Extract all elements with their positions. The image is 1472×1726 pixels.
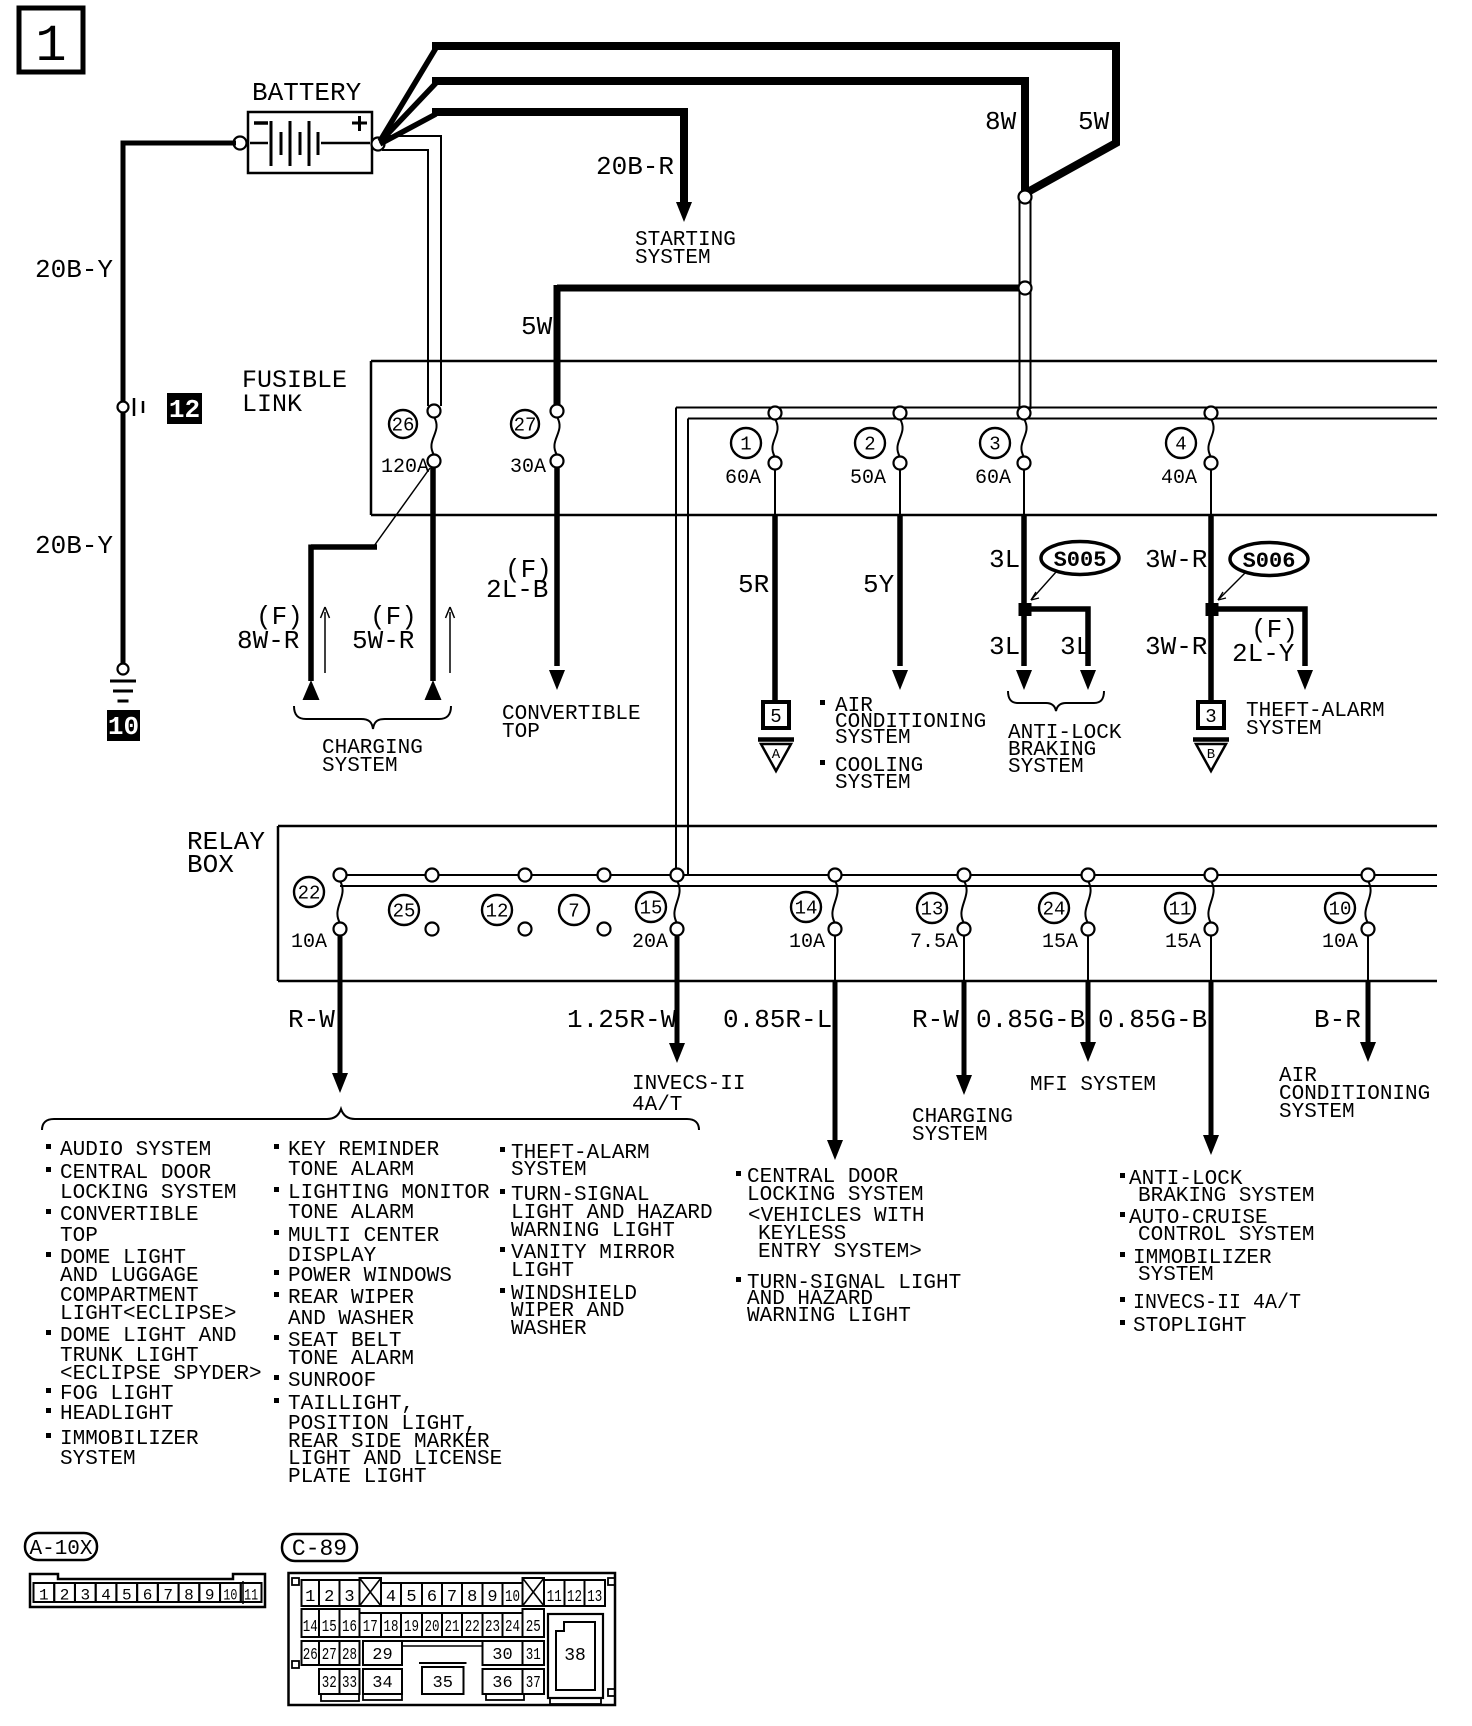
ground symbol [110, 681, 136, 701]
wire battery feed diagonals [380, 48, 436, 144]
relay box bus double line [340, 875, 1437, 886]
svg-text:7: 7 [447, 1588, 457, 1607]
svg-text:LIGHT<ECLIPSE>: LIGHT<ECLIPSE> [60, 1303, 236, 1326]
relay fuse 24 (15A) [1039, 869, 1095, 955]
svg-text:6: 6 [143, 1587, 153, 1605]
svg-text:10: 10 [223, 1587, 237, 1605]
label 3L lower right [1060, 632, 1091, 662]
svg-text:20B-Y: 20B-Y [35, 531, 113, 561]
svg-text:5: 5 [770, 706, 781, 728]
svg-text:SYSTEM: SYSTEM [1246, 718, 1322, 741]
svg-text:9: 9 [205, 1587, 215, 1605]
svg-text:22: 22 [298, 883, 321, 905]
svg-text:30: 30 [492, 1646, 512, 1665]
svg-text:7: 7 [163, 1587, 173, 1605]
label 20B-Y upper [35, 255, 113, 285]
svg-text:4: 4 [1175, 434, 1186, 456]
svg-text:12: 12 [567, 1588, 582, 1607]
label 0.85G-B left [976, 1005, 1085, 1035]
svg-text:3L: 3L [989, 545, 1020, 575]
wire 5Y to A/C and cooling [892, 469, 908, 690]
label 5W mid [521, 312, 553, 342]
label 5Y [863, 570, 895, 600]
svg-text:50A: 50A [850, 467, 886, 490]
junction dot S006 [1206, 603, 1219, 616]
wire 2L-Y branch to theft-alarm [1215, 609, 1313, 690]
svg-text:SYSTEM: SYSTEM [835, 727, 911, 750]
svg-text:SYSTEM: SYSTEM [635, 247, 711, 270]
svg-text:SYSTEM: SYSTEM [835, 772, 911, 795]
label 20B-Y lower [35, 531, 113, 561]
wire 0.85G-B fuse11 output [1203, 935, 1219, 1155]
label CHARGING SYSTEM right [912, 1106, 1013, 1147]
relay box [278, 826, 1437, 981]
fusible link 4 (40A) [1161, 407, 1218, 491]
svg-text:4: 4 [101, 1587, 111, 1605]
svg-text:60A: 60A [975, 467, 1011, 490]
svg-text:1: 1 [35, 17, 66, 76]
list anti-lock etc under fuse11 [1120, 1168, 1314, 1338]
connector C-89 pin block [289, 1573, 616, 1705]
svg-text:REAR WIPER: REAR WIPER [288, 1287, 414, 1310]
ground node circle [118, 664, 129, 675]
svg-text:1: 1 [740, 434, 751, 456]
triangle connector A [758, 740, 794, 772]
fusible link 26 (120A) [381, 405, 441, 480]
svg-text:3L: 3L [989, 632, 1020, 662]
svg-text:21: 21 [445, 1618, 460, 1637]
relay fuse 14 (10A) [789, 869, 842, 955]
pointer S005 to junction [1031, 572, 1056, 600]
svg-text:AUDIO SYSTEM: AUDIO SYSTEM [60, 1139, 211, 1162]
svg-text:25: 25 [526, 1618, 541, 1637]
svg-text:BATTERY: BATTERY [252, 78, 362, 108]
wire 8W-R to charging system [303, 468, 431, 700]
svg-text:ENTRY SYSTEM>: ENTRY SYSTEM> [758, 1241, 922, 1264]
svg-text:60A: 60A [725, 467, 761, 490]
svg-text:INVECS-II 4A/T: INVECS-II 4A/T [1133, 1292, 1301, 1315]
label AIR CONDITIONING SYSTEM right [1279, 1065, 1430, 1124]
svg-text:3: 3 [81, 1587, 91, 1605]
svg-text:27: 27 [514, 415, 537, 437]
svg-text:LINK: LINK [242, 390, 302, 419]
list column 1 (audio system etc) [46, 1139, 262, 1471]
junction block pin box 3 [1198, 702, 1224, 728]
svg-text:LIGHT: LIGHT [511, 1260, 574, 1283]
label R-W right [912, 1005, 959, 1035]
list column 2 (key reminder etc) [274, 1139, 502, 1489]
svg-text:8: 8 [184, 1587, 194, 1605]
svg-text:37: 37 [526, 1674, 541, 1693]
svg-text:5R: 5R [738, 570, 769, 600]
flow arrow up right [446, 607, 455, 673]
svg-text:15A: 15A [1042, 931, 1078, 954]
svg-text:5Y: 5Y [863, 570, 895, 600]
label B-R [1314, 1005, 1361, 1035]
junction block pin box 5 [763, 702, 789, 728]
pointer S006 to junction [1218, 573, 1245, 600]
svg-text:5W: 5W [1078, 107, 1110, 137]
label R-W left [288, 1005, 335, 1035]
label 5R [738, 570, 769, 600]
svg-text:LOCKING SYSTEM: LOCKING SYSTEM [747, 1184, 923, 1207]
svg-text:0.85R-L: 0.85R-L [723, 1005, 832, 1035]
svg-text:24: 24 [1043, 899, 1066, 921]
list column 4 (central door locking etc) [736, 1166, 961, 1328]
label 3L lower left [989, 632, 1020, 662]
svg-text:5: 5 [406, 1588, 416, 1607]
svg-text:SUNROOF: SUNROOF [288, 1370, 376, 1393]
svg-text:29: 29 [372, 1646, 392, 1665]
svg-text:10: 10 [1329, 899, 1352, 921]
svg-text:13: 13 [921, 899, 944, 921]
svg-text:34: 34 [372, 1674, 392, 1693]
label AIR CONDITIONING SYSTEM [820, 695, 986, 750]
junction node upper (8W/5W merge) [1019, 191, 1032, 204]
svg-text:BOX: BOX [187, 850, 234, 880]
svg-text:3W-R: 3W-R [1145, 632, 1207, 662]
svg-text:120A: 120A [381, 456, 429, 479]
svg-text:2L-B: 2L-B [486, 575, 548, 605]
svg-text:26: 26 [303, 1646, 318, 1665]
connector label C-89 [282, 1534, 357, 1562]
svg-text:2: 2 [324, 1588, 334, 1607]
label (F) 2L-Y [1232, 615, 1298, 669]
svg-text:AND WASHER: AND WASHER [288, 1308, 414, 1331]
svg-text:15: 15 [322, 1618, 337, 1637]
relay fuse 22 (10A) [291, 869, 347, 955]
svg-text:15A: 15A [1165, 931, 1201, 954]
svg-text:7: 7 [568, 901, 579, 923]
connector A-10X pin block [30, 1574, 265, 1607]
svg-text:38: 38 [564, 1646, 586, 1666]
label 20B-R [596, 152, 674, 182]
label THEFT-ALARM SYSTEM [1246, 700, 1385, 741]
svg-text:TONE ALARM: TONE ALARM [288, 1159, 414, 1182]
label (F) 8W-R [237, 602, 303, 656]
svg-text:10: 10 [505, 1588, 520, 1607]
svg-text:LOCKING SYSTEM: LOCKING SYSTEM [60, 1182, 236, 1205]
wire R-W fuse13 output [956, 935, 972, 1095]
fusible link 2 (50A) [850, 407, 907, 491]
svg-text:3: 3 [1205, 706, 1216, 728]
svg-text:20A: 20A [632, 931, 668, 954]
svg-text:WARNING LIGHT: WARNING LIGHT [511, 1220, 675, 1243]
junction node 5W tap [1019, 282, 1032, 295]
wire R-W fuse22 output [332, 935, 348, 1093]
svg-text:WARNING LIGHT: WARNING LIGHT [747, 1305, 911, 1328]
label 8W [985, 107, 1017, 137]
label 3W-R upper [1145, 545, 1207, 575]
svg-text:S005: S005 [1054, 548, 1107, 573]
svg-text:PLATE LIGHT: PLATE LIGHT [288, 1466, 427, 1489]
brace charging system [294, 706, 451, 729]
svg-text:TONE ALARM: TONE ALARM [288, 1348, 414, 1371]
svg-text:TOP: TOP [60, 1225, 98, 1248]
svg-text:22: 22 [465, 1618, 480, 1637]
svg-text:B: B [1207, 747, 1215, 763]
label 3L upper [989, 545, 1020, 575]
wire 3W-R main [1210, 469, 1212, 701]
svg-text:5: 5 [122, 1587, 132, 1605]
svg-text:SYSTEM: SYSTEM [60, 1448, 136, 1471]
svg-text:A: A [772, 747, 781, 763]
wire 2L-B to convertible top [549, 467, 565, 690]
svg-text:11: 11 [1169, 899, 1192, 921]
svg-text:20B-R: 20B-R [596, 152, 674, 182]
fusible link 1 (60A) [725, 407, 782, 491]
svg-text:8W: 8W [985, 107, 1017, 137]
svg-text:4A/T: 4A/T [632, 1094, 682, 1117]
svg-text:10: 10 [108, 712, 139, 742]
svg-text:20: 20 [425, 1618, 440, 1637]
svg-text:30A: 30A [510, 456, 546, 479]
svg-text:15: 15 [640, 898, 663, 920]
svg-text:MFI SYSTEM: MFI SYSTEM [1030, 1074, 1156, 1097]
svg-text:3L: 3L [1060, 632, 1091, 662]
svg-text:25: 25 [393, 901, 416, 923]
fusible link box [371, 361, 1437, 515]
svg-text:WASHER: WASHER [511, 1318, 587, 1341]
wire 5R to junction block [774, 469, 776, 703]
label MFI SYSTEM [1030, 1074, 1156, 1097]
svg-text:C-89: C-89 [292, 1536, 347, 1562]
label FUSIBLE LINK [242, 366, 347, 419]
triangle connector B [1193, 740, 1229, 772]
svg-text:40A: 40A [1161, 467, 1197, 490]
svg-text:1: 1 [305, 1588, 315, 1607]
wire 5W-R to charging system [425, 467, 442, 700]
svg-text:8: 8 [467, 1588, 477, 1607]
svg-text:19: 19 [404, 1618, 419, 1637]
svg-text:STOPLIGHT: STOPLIGHT [1133, 1315, 1246, 1338]
svg-text:HEADLIGHT: HEADLIGHT [60, 1403, 173, 1426]
svg-text:A-10X: A-10X [29, 1538, 92, 1561]
relay position 25 [389, 869, 439, 936]
svg-text:SYSTEM: SYSTEM [322, 755, 398, 778]
relay fuse 13 (7.5A) [910, 869, 971, 955]
wire battery negative to ground (20B-Y) [123, 143, 236, 663]
svg-text:CONTROL SYSTEM: CONTROL SYSTEM [1138, 1224, 1314, 1247]
label 0.85R-L [723, 1005, 832, 1035]
relay fuse 15 (20A) [632, 869, 684, 955]
svg-text:3W-R: 3W-R [1145, 545, 1207, 575]
brace anti-lock braking [1008, 691, 1104, 711]
svg-text:4: 4 [386, 1588, 396, 1607]
flow arrow up left [321, 607, 330, 673]
svg-text:8W-R: 8W-R [237, 626, 299, 656]
svg-text:SYSTEM: SYSTEM [912, 1124, 988, 1147]
wire 1.25R-W fuse15 output [669, 935, 685, 1063]
svg-text:26: 26 [392, 415, 415, 437]
junction dot S005 [1019, 603, 1032, 616]
svg-text:SYSTEM: SYSTEM [1279, 1101, 1355, 1124]
svg-text:2L-Y: 2L-Y [1232, 639, 1295, 669]
svg-text:17: 17 [363, 1618, 378, 1637]
svg-text:INVECS-II: INVECS-II [632, 1073, 745, 1096]
relay position 7 [559, 869, 611, 936]
svg-text:7.5A: 7.5A [910, 931, 958, 954]
list column 3 (theft-alarm etc) [500, 1142, 713, 1341]
svg-text:9: 9 [487, 1588, 497, 1607]
svg-text:2: 2 [60, 1587, 70, 1605]
label CHARGING SYSTEM left [322, 737, 423, 778]
label RELAY BOX [187, 827, 265, 880]
svg-text:0.85G-B: 0.85G-B [976, 1005, 1085, 1035]
svg-text:CONVERTIBLE: CONVERTIBLE [60, 1204, 199, 1227]
relay fuse 10 (10A) [1322, 869, 1375, 955]
label 3W-R lower [1145, 632, 1207, 662]
svg-text:16: 16 [342, 1618, 357, 1637]
svg-text:27: 27 [322, 1646, 337, 1665]
svg-text:33: 33 [342, 1674, 357, 1693]
wire 0.85G-B fuse24 output [1080, 935, 1096, 1062]
label 5W top [1078, 107, 1110, 137]
svg-text:11: 11 [244, 1587, 258, 1605]
label COOLING SYSTEM [820, 755, 923, 795]
svg-text:10A: 10A [789, 931, 825, 954]
svg-text:POWER WINDOWS: POWER WINDOWS [288, 1265, 452, 1288]
label (F) 5W-R [352, 602, 417, 656]
label 1.25R-W [567, 1005, 677, 1035]
svg-text:23: 23 [485, 1618, 500, 1637]
svg-text:32: 32 [322, 1674, 337, 1693]
page number box 1 [19, 8, 83, 76]
svg-text:TONE ALARM: TONE ALARM [288, 1202, 414, 1225]
splice S006 [1230, 543, 1308, 576]
wire 8W feed [432, 81, 1025, 191]
splice S005 [1041, 542, 1119, 575]
svg-text:28: 28 [342, 1646, 357, 1665]
battery positive terminal node [372, 138, 385, 151]
svg-text:3: 3 [344, 1588, 354, 1607]
ground ref box 10 [107, 710, 140, 742]
svg-text:20B-Y: 20B-Y [35, 255, 113, 285]
svg-text:35: 35 [433, 1674, 453, 1693]
wire merged feed to fuse 3 (double line) [1020, 200, 1031, 409]
svg-text:10A: 10A [1322, 931, 1358, 954]
svg-text:TOP: TOP [502, 721, 540, 744]
wire 3L main to ABS [1016, 469, 1032, 690]
svg-text:S006: S006 [1243, 549, 1296, 574]
connector 12 symbol on ground wire [118, 398, 144, 416]
battery BATTERY label [252, 78, 362, 108]
svg-text:13: 13 [587, 1588, 602, 1607]
svg-text:12: 12 [169, 395, 200, 425]
svg-text:31: 31 [526, 1646, 541, 1665]
svg-text:B-R: B-R [1314, 1005, 1361, 1035]
svg-text:2: 2 [864, 434, 875, 456]
svg-text:24: 24 [505, 1618, 520, 1637]
svg-text:SYSTEM: SYSTEM [511, 1159, 587, 1182]
svg-text:10A: 10A [291, 931, 327, 954]
svg-text:R-W: R-W [288, 1005, 335, 1035]
relay fuse 11 (15A) [1165, 869, 1218, 955]
svg-text:3: 3 [989, 434, 1000, 456]
svg-text:SYSTEM: SYSTEM [1138, 1264, 1214, 1287]
bus double line in fusible link box [676, 408, 1437, 876]
svg-text:5W-R: 5W-R [352, 626, 414, 656]
relay position 12 [482, 869, 532, 936]
wire 5W to fuse 27 [557, 285, 1019, 406]
label INVECS-II 4A/T [632, 1073, 745, 1117]
label ANTI-LOCK BRAKING SYSTEM [1008, 722, 1122, 779]
battery negative terminal node [234, 137, 247, 150]
label CONVERTIBLE TOP [502, 703, 641, 744]
svg-text:11: 11 [547, 1588, 562, 1607]
connector ref box 12 [167, 393, 202, 425]
brace systems group [42, 1109, 699, 1130]
wire battery to fusible link 26 (double line) [382, 136, 441, 406]
svg-text:14: 14 [795, 898, 818, 920]
fusible link 27 (30A) [510, 405, 564, 480]
svg-text:6: 6 [427, 1588, 437, 1607]
svg-text:R-W: R-W [912, 1005, 959, 1035]
svg-text:14: 14 [303, 1618, 318, 1637]
svg-text:36: 36 [492, 1674, 512, 1693]
svg-text:18: 18 [384, 1618, 399, 1637]
label STARTING SYSTEM [635, 229, 736, 270]
wire B-R fuse10 output [1360, 935, 1376, 1062]
wire 3L branch to ABS [1028, 609, 1096, 690]
label (F) 2L-B [486, 555, 552, 605]
svg-text:0.85G-B: 0.85G-B [1098, 1005, 1207, 1035]
battery B1 [248, 112, 372, 173]
wire 20B-R to starting system [432, 112, 692, 222]
wire 5W feed (top) [432, 46, 1116, 193]
connector label A-10X [25, 1533, 97, 1561]
wire 0.85R-L fuse14 output [827, 935, 843, 1160]
svg-text:5W: 5W [521, 312, 553, 342]
svg-text:1.25R-W: 1.25R-W [567, 1005, 677, 1035]
fusible link 3 (60A) [975, 407, 1031, 491]
label 0.85G-B right [1098, 1005, 1207, 1035]
svg-text:BRAKING SYSTEM: BRAKING SYSTEM [1138, 1185, 1314, 1208]
svg-text:1: 1 [39, 1587, 49, 1605]
svg-text:SYSTEM: SYSTEM [1008, 756, 1084, 779]
svg-text:12: 12 [486, 901, 509, 923]
